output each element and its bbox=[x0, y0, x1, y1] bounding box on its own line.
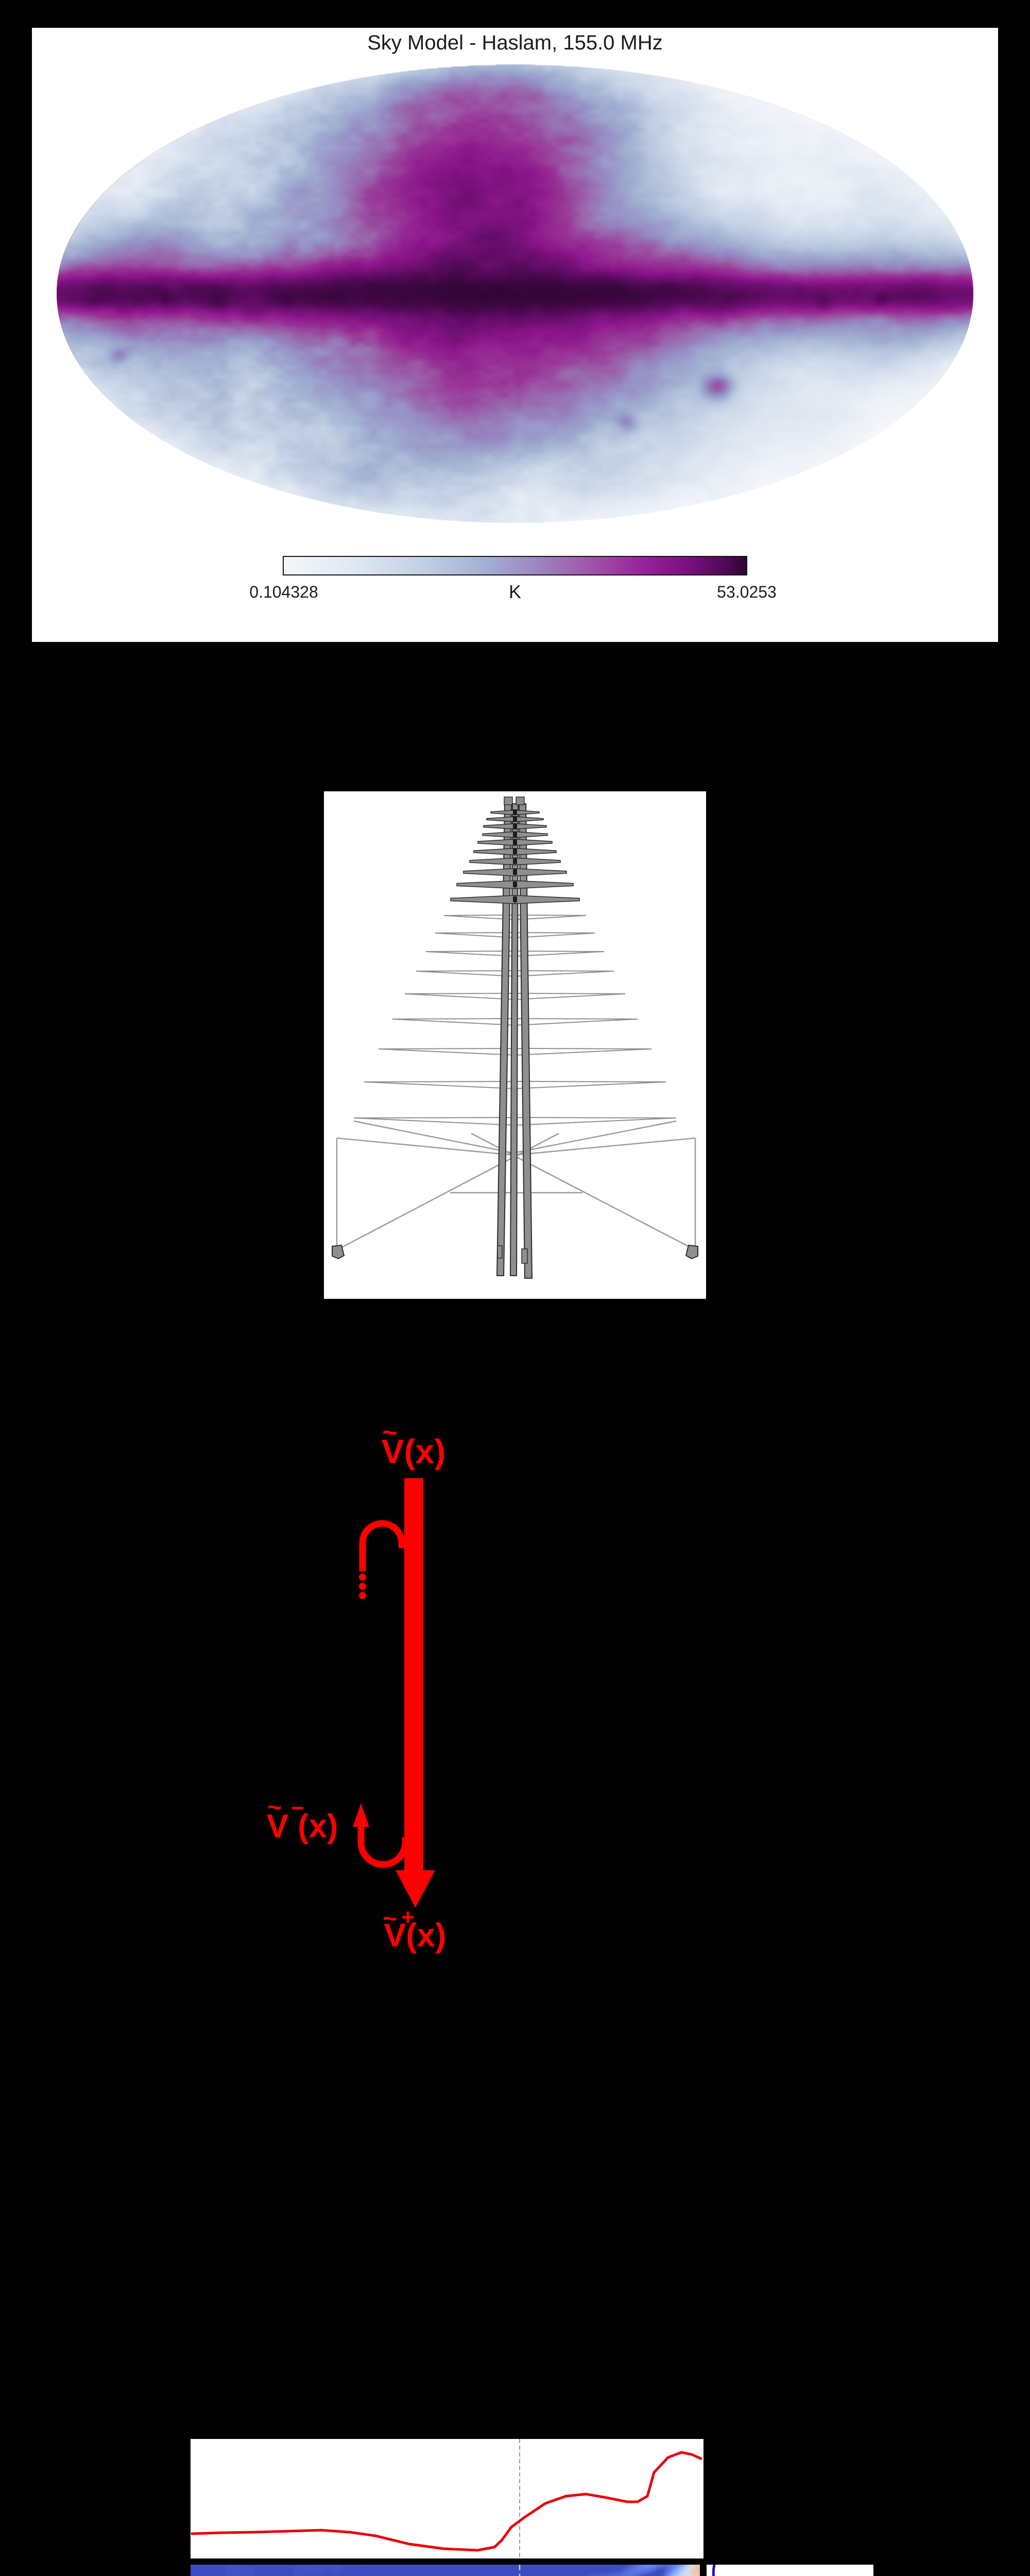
boom top caps bbox=[504, 797, 512, 805]
label V tilde plus (x) bottom bbox=[383, 1905, 446, 1954]
hollow dipole element pair y=1810 bbox=[435, 933, 595, 938]
filled dipole element pair y=1635 bbox=[478, 839, 552, 845]
filled dipole element pair y=1746 bbox=[451, 895, 579, 904]
hollow dipole element pair y=1977 bbox=[392, 1019, 638, 1025]
blue spectrum curve bbox=[712, 2565, 873, 2576]
gridline bbox=[519, 2439, 520, 2558]
left anchor block bbox=[332, 1245, 344, 1259]
boom right bbox=[519, 804, 532, 1278]
svg-text:+: + bbox=[401, 1905, 415, 1930]
colorbar max label bbox=[717, 583, 777, 602]
filled dipole element pair y=1577 bbox=[491, 810, 539, 815]
top marginal plot box bbox=[188, 2437, 706, 2561]
bottom brackets bbox=[497, 1246, 502, 1258]
svg-text:~: ~ bbox=[383, 1905, 397, 1933]
filled dipole element pair y=1604 bbox=[484, 824, 546, 829]
top hook arc bbox=[359, 1520, 405, 1571]
hollow dipole element pair y=2099 bbox=[364, 1081, 666, 1089]
right marginal bbox=[707, 2561, 875, 2576]
filled dipole element pair y=1653 bbox=[474, 849, 556, 855]
filled dipole element pair y=1693 bbox=[463, 869, 566, 876]
feed block bbox=[513, 882, 517, 887]
label V tilde minus (x) left bbox=[267, 1794, 338, 1844]
gridline v bbox=[519, 2565, 521, 2576]
feed block bbox=[513, 896, 517, 902]
feed block bbox=[513, 809, 517, 815]
filled dipole element pair y=1590 bbox=[487, 817, 543, 822]
filled dipole element pair y=1672 bbox=[470, 858, 560, 865]
boom left bbox=[497, 804, 511, 1276]
main arrowhead bbox=[396, 1870, 435, 1908]
svg-text:−: − bbox=[291, 1795, 304, 1821]
wire: short horizontal support bbox=[450, 1192, 582, 1194]
label V tilde (x) top bbox=[382, 1418, 446, 1470]
hollow dipole element pair y=1846 bbox=[426, 951, 604, 956]
feed block bbox=[513, 816, 517, 822]
filled dipole element pair y=1620 bbox=[483, 832, 547, 837]
hollow dipole element pair y=2035 bbox=[379, 1048, 651, 1055]
feed block bbox=[513, 832, 517, 837]
wire: left post bbox=[336, 1138, 338, 1248]
sky colorbar bbox=[283, 556, 747, 575]
main arrow shaft bbox=[404, 1478, 423, 1870]
hollow dipole element pair y=2169 bbox=[354, 1117, 676, 1125]
red LST profile curve bbox=[191, 2452, 702, 2550]
dotted trail bbox=[359, 1573, 366, 1581]
svg-text:~: ~ bbox=[382, 1418, 398, 1448]
feed block bbox=[513, 849, 517, 854]
bottom U-turn arrow bbox=[358, 1824, 409, 1868]
waterfall heatmap box bbox=[188, 2561, 707, 2576]
feed block bbox=[513, 839, 517, 845]
svg-text:~: ~ bbox=[267, 1794, 282, 1821]
wire: right guy diagonal bbox=[471, 1133, 692, 1248]
colorbar min label bbox=[249, 583, 318, 602]
white figure background panel 2 bbox=[324, 791, 706, 1299]
wire: sagging top span bbox=[337, 1138, 695, 1155]
right anchor block bbox=[686, 1245, 698, 1259]
Mollweide sky map (Haslam 155 MHz) bbox=[57, 64, 973, 523]
feed block bbox=[513, 858, 517, 864]
hollow dipole element pair y=1928 bbox=[405, 993, 625, 999]
white figure background panel 1 bbox=[32, 28, 998, 642]
hollow dipole element pair y=1884 bbox=[416, 971, 614, 976]
boom middle bbox=[510, 804, 518, 1276]
feed block bbox=[513, 823, 517, 829]
wire: second span from element tips bbox=[354, 1121, 676, 1153]
colorbar unit label K bbox=[509, 581, 521, 603]
wire: right post bbox=[695, 1138, 696, 1248]
filled dipole element pair y=1717 bbox=[457, 880, 573, 888]
wire: left guy diagonal bbox=[340, 1133, 559, 1248]
feed block bbox=[513, 869, 517, 875]
hollow dipole element pair y=1776 bbox=[444, 915, 586, 920]
